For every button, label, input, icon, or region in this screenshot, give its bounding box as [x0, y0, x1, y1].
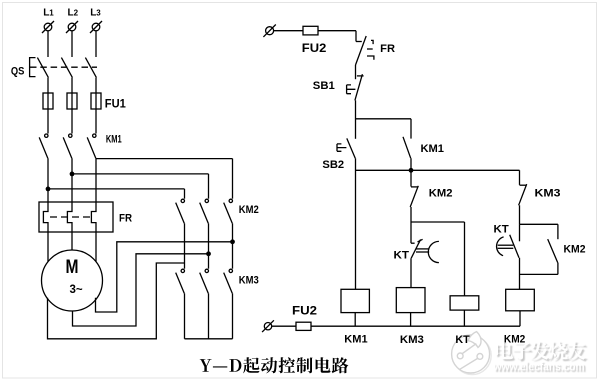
svg-text:KM2: KM2	[429, 188, 453, 200]
svg-text:KT: KT	[455, 334, 470, 346]
svg-text:KM2: KM2	[504, 334, 525, 346]
svg-text:QS: QS	[11, 66, 25, 78]
svg-text:FR: FR	[119, 213, 132, 225]
svg-text:FR: FR	[380, 43, 395, 55]
svg-text:FU2: FU2	[292, 306, 317, 318]
svg-text:SB2: SB2	[322, 159, 344, 171]
svg-text:KM3: KM3	[239, 274, 259, 286]
svg-text:KM1: KM1	[344, 334, 367, 346]
svg-text:KM2: KM2	[564, 244, 586, 256]
svg-text:KM1: KM1	[106, 133, 122, 145]
svg-text:M: M	[66, 255, 79, 277]
svg-text:KM1: KM1	[421, 143, 445, 155]
svg-text:L1: L1	[43, 7, 54, 18]
svg-text:KT: KT	[494, 224, 509, 236]
svg-text:KM2: KM2	[239, 204, 259, 216]
svg-text:FU1: FU1	[105, 98, 127, 110]
svg-text:KM3: KM3	[535, 187, 561, 199]
svg-text:SB1: SB1	[313, 80, 335, 92]
svg-text:FU2: FU2	[302, 43, 327, 55]
svg-text:www.elecfans.com: www.elecfans.com	[493, 362, 585, 374]
svg-text:L2: L2	[68, 7, 79, 18]
svg-text:L3: L3	[90, 7, 101, 18]
svg-text:KM3: KM3	[400, 334, 424, 346]
svg-text:KT: KT	[394, 249, 410, 261]
svg-text:3~: 3~	[69, 284, 82, 296]
